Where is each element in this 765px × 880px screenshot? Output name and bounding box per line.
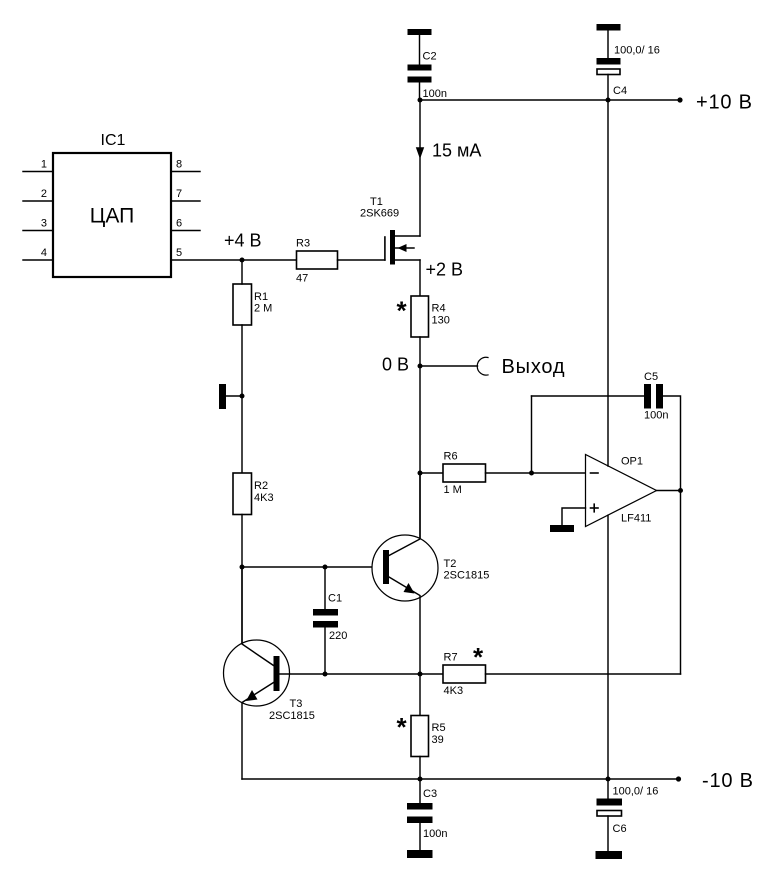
resistor R4 bbox=[411, 296, 429, 337]
+10V rail wire bbox=[420, 99, 680, 101]
capacitor C5 plate 2 bbox=[656, 384, 663, 409]
resistor R5 bbox=[411, 716, 429, 757]
-10V rail end dot bbox=[676, 776, 681, 781]
svg-text:*: * bbox=[397, 712, 408, 742]
resistor R2 bbox=[233, 473, 252, 515]
svg-text:8: 8 bbox=[176, 159, 182, 171]
svg-text:T2: T2 bbox=[444, 558, 457, 570]
capacitor C4 ground bar bbox=[597, 24, 621, 31]
wire T3 base to node bbox=[280, 673, 421, 675]
wire C4 ground to plate bbox=[607, 31, 609, 59]
wire +10V to T1 drain bbox=[419, 100, 421, 236]
svg-text:C1: C1 bbox=[328, 593, 342, 605]
wire 0V to output terminal bbox=[420, 365, 478, 367]
-10V rail wire bbox=[242, 778, 679, 780]
svg-text:IC1: IC1 bbox=[101, 132, 126, 149]
svg-text:R1: R1 bbox=[254, 291, 268, 303]
capacitor C6 ground bar bbox=[596, 851, 623, 859]
IC IC1 box bbox=[53, 153, 171, 277]
wire R6 to op-amp minus input bbox=[486, 472, 586, 474]
capacitor C6 bottom wire bbox=[607, 816, 609, 851]
resistor R7 bbox=[443, 665, 486, 683]
op-amp minus sign bbox=[591, 472, 599, 474]
wire R7 to output vertical bbox=[486, 673, 681, 675]
svg-text:R3: R3 bbox=[296, 238, 310, 250]
svg-text:39: 39 bbox=[432, 734, 444, 746]
junction emitter node bbox=[418, 672, 423, 677]
svg-text:100n: 100n bbox=[644, 410, 668, 422]
wire T2 base node to T2 bbox=[242, 566, 383, 568]
svg-text:ЦАП: ЦАП bbox=[90, 205, 134, 228]
transistor T1 substrate arrow bbox=[398, 244, 407, 252]
svg-text:+2 В: +2 В bbox=[426, 260, 464, 280]
ground stub wire bbox=[226, 395, 242, 397]
svg-text:C6: C6 bbox=[613, 823, 627, 835]
transistor T3 base bar bbox=[274, 656, 280, 691]
capacitor C4 positive plate bbox=[597, 69, 620, 75]
svg-text:100,0/ 16: 100,0/ 16 bbox=[614, 45, 660, 57]
transistor T1 source wire bbox=[395, 259, 420, 261]
svg-text:7: 7 bbox=[176, 188, 182, 200]
capacitor C1 top wire bbox=[324, 567, 326, 609]
IC1 pin 8 wire bbox=[171, 171, 200, 173]
svg-text:C2: C2 bbox=[423, 51, 437, 63]
wire T1 source down to R4 bbox=[419, 260, 421, 296]
transistor T1 gate electrode bbox=[384, 237, 386, 260]
wire C4 to +10V rail bbox=[607, 75, 609, 101]
wire +4V node to R1 bbox=[241, 260, 243, 284]
capacitor C3 plate 2 bbox=[407, 817, 433, 824]
capacitor C4 negative plate bbox=[597, 58, 621, 65]
wire to R6 bbox=[420, 472, 443, 474]
wire pin5 to R3 bbox=[171, 259, 297, 261]
+10V rail end dot bbox=[677, 97, 682, 102]
IC1 pin 7 wire bbox=[171, 200, 200, 202]
capacitor C6 positive plate bbox=[597, 811, 622, 817]
IC1 pin 2 wire bbox=[23, 200, 53, 202]
junction C3 / -10V bbox=[418, 777, 423, 782]
wire C2 to +10V rail bbox=[419, 83, 421, 101]
wire output node down to R7 bbox=[680, 491, 682, 675]
svg-text:T3: T3 bbox=[290, 698, 303, 710]
IC1 pin 6 wire bbox=[171, 230, 200, 232]
wire C5 to output node bbox=[663, 396, 681, 491]
wire R3 to T1 gate bbox=[338, 259, 385, 261]
node +4 V junction bbox=[240, 258, 245, 263]
IC1 pin 4 wire bbox=[23, 259, 53, 261]
capacitor C3 top wire bbox=[419, 779, 421, 803]
wire op-amp output bbox=[657, 490, 681, 492]
capacitor C6 negative plate bbox=[597, 799, 623, 806]
IC1 pin 3 wire bbox=[23, 230, 53, 232]
svg-text:100n: 100n bbox=[423, 88, 447, 100]
junction feedback node bbox=[529, 471, 534, 476]
transistor T2 collector lead bbox=[389, 473, 420, 556]
junction C1 bottom bbox=[323, 672, 328, 677]
transistor T3 emitter lead bbox=[242, 683, 274, 780]
resistor R1 bbox=[233, 284, 252, 325]
capacitor C2 plate 2 bbox=[408, 77, 432, 83]
capacitor C1 plate 2 bbox=[313, 621, 338, 628]
power rail lower segment bbox=[607, 515, 609, 779]
op-amp plus sign bbox=[591, 507, 599, 509]
current arrow 15 mA bbox=[416, 147, 424, 159]
svg-text:C4: C4 bbox=[613, 85, 627, 97]
capacitor C3 ground bar bbox=[407, 850, 433, 858]
transistor T2 emitter arrow bbox=[404, 583, 415, 594]
capacitor C5 plate 1 bbox=[644, 384, 651, 409]
transistor T1 drain wire bbox=[395, 235, 420, 237]
transistor T3 circle bbox=[224, 640, 290, 706]
svg-text:2SC1815: 2SC1815 bbox=[444, 570, 490, 582]
wire R4 to 0V node and down bbox=[419, 337, 421, 539]
svg-text:1 M: 1 M bbox=[444, 484, 462, 496]
svg-text:5: 5 bbox=[176, 247, 182, 259]
svg-text:47: 47 bbox=[296, 273, 308, 285]
power rail upper segment bbox=[607, 100, 609, 466]
op-amp OP1 triangle bbox=[586, 455, 657, 527]
junction C6 / -10V bbox=[606, 777, 611, 782]
svg-text:6: 6 bbox=[176, 218, 182, 230]
svg-text:C5: C5 bbox=[644, 371, 658, 383]
capacitor C1 bottom wire bbox=[324, 628, 326, 675]
transistor T3 emitter arrow bbox=[246, 690, 258, 701]
svg-text:LF411: LF411 bbox=[621, 513, 651, 525]
svg-text:R5: R5 bbox=[432, 722, 446, 734]
junction at C4 / +10V bbox=[606, 98, 611, 103]
transistor T2 base bar bbox=[383, 550, 389, 584]
svg-text:3: 3 bbox=[41, 218, 47, 230]
svg-text:1: 1 bbox=[41, 159, 47, 171]
transistor T1 channel bar bbox=[390, 230, 395, 265]
op-amp plus ground bar bbox=[550, 525, 574, 532]
junction 0V node bbox=[418, 364, 423, 369]
resistor R6 bbox=[443, 464, 486, 482]
svg-text:OP1: OP1 bbox=[621, 456, 643, 468]
ground stub bar bbox=[219, 384, 226, 409]
svg-text:-10 В: -10 В bbox=[702, 770, 754, 792]
svg-text:Выход: Выход bbox=[502, 356, 566, 378]
svg-text:R2: R2 bbox=[254, 480, 268, 492]
junction output node bbox=[678, 488, 683, 493]
svg-text:C3: C3 bbox=[423, 788, 437, 800]
svg-text:R6: R6 bbox=[444, 451, 458, 463]
svg-text:2SK669: 2SK669 bbox=[360, 208, 399, 220]
svg-text:2SC1815: 2SC1815 bbox=[269, 710, 315, 722]
svg-text:100n: 100n bbox=[423, 828, 447, 840]
output terminal arc bbox=[477, 357, 488, 375]
svg-text:4K3: 4K3 bbox=[254, 492, 274, 504]
svg-text:100,0/ 16: 100,0/ 16 bbox=[613, 786, 659, 798]
svg-text:4K3: 4K3 bbox=[444, 685, 464, 697]
junction R6 left bbox=[418, 471, 423, 476]
junction C1 top bbox=[323, 565, 328, 570]
wire C2 ground to plate bbox=[419, 35, 421, 65]
svg-text:2 M: 2 M bbox=[254, 303, 272, 315]
svg-text:220: 220 bbox=[329, 630, 347, 642]
wire feedback to C5 bbox=[532, 395, 645, 397]
transistor T3 collector lead bbox=[242, 567, 274, 666]
capacitor C3 plate 1 bbox=[407, 803, 433, 810]
svg-text:T1: T1 bbox=[370, 196, 383, 208]
svg-text:130: 130 bbox=[432, 315, 450, 327]
svg-text:+10 В: +10 В bbox=[696, 92, 753, 114]
capacitor C1 plate 1 bbox=[313, 609, 338, 616]
svg-text:15 мА: 15 мА bbox=[432, 141, 481, 161]
transistor T2 emitter lead bbox=[389, 577, 420, 674]
svg-text:4: 4 bbox=[41, 247, 47, 259]
capacitor C6 top wire bbox=[607, 779, 609, 799]
wire op-amp plus input bbox=[562, 508, 586, 525]
junction T2 base node bbox=[240, 565, 245, 570]
wire R5 to -10V rail bbox=[419, 757, 421, 780]
capacitor C2 plate 1 bbox=[408, 65, 432, 71]
wire R1 to R2 bbox=[241, 325, 243, 473]
transistor T1 substrate stub bbox=[395, 247, 414, 249]
svg-text:0 В: 0 В bbox=[382, 355, 409, 375]
svg-text:+4 В: +4 В bbox=[224, 231, 262, 251]
wire feedback node up bbox=[531, 396, 533, 473]
junction ground stub node bbox=[240, 394, 245, 399]
svg-text:*: * bbox=[473, 642, 484, 672]
svg-text:2: 2 bbox=[41, 188, 47, 200]
transistor T2 circle bbox=[372, 535, 438, 601]
resistor R3 bbox=[297, 251, 338, 269]
svg-text:*: * bbox=[397, 296, 408, 326]
wire R2 down to T3 collector node bbox=[241, 515, 243, 644]
capacitor C2 ground bar bbox=[408, 29, 432, 35]
capacitor C3 bottom wire bbox=[419, 823, 421, 850]
svg-text:R7: R7 bbox=[444, 652, 458, 664]
IC1 pin 1 wire bbox=[23, 171, 53, 173]
wire node down to R5 bbox=[419, 674, 421, 716]
junction at C2 / +10V bbox=[418, 98, 423, 103]
wire node to R7 bbox=[420, 673, 443, 675]
svg-text:R4: R4 bbox=[432, 303, 446, 315]
